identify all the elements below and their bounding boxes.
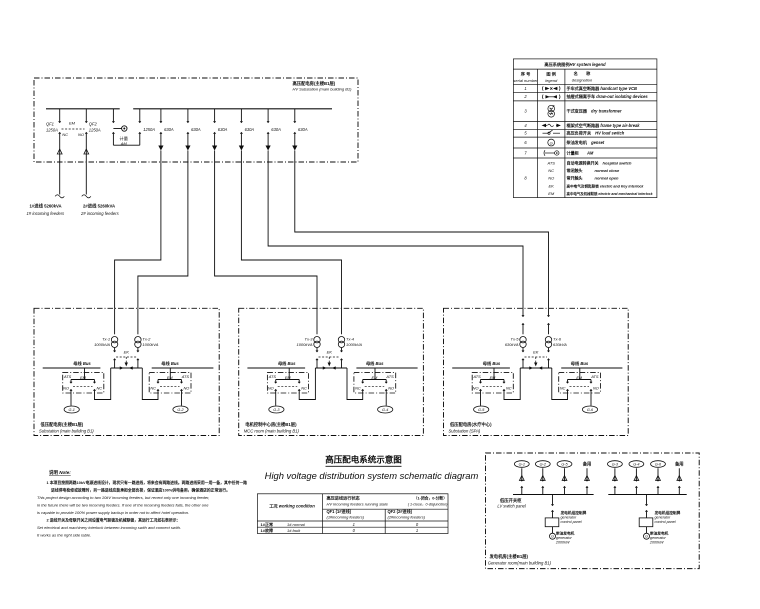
svg-text:NO: NO <box>268 385 274 390</box>
svg-text:This project design according: This project design according to two 10k… <box>37 495 209 500</box>
transformer Tx-6 630kVA <box>545 308 551 352</box>
svg-text:generator: generator <box>556 536 573 540</box>
svg-text:ATS: ATS <box>268 374 277 379</box>
svg-text:高压配电系统示意图: 高压配电系统示意图 <box>325 455 402 465</box>
svg-text:EK: EK <box>124 349 130 354</box>
svg-text:G-3: G-3 <box>612 463 619 467</box>
transformer Tx-5 630kVA <box>520 308 526 352</box>
switch below Tx-4 <box>340 351 342 369</box>
label Tx-4 1000kVA <box>346 337 362 347</box>
switch NC (right ATS, transformer side) <box>347 368 364 400</box>
legend table frame <box>513 59 657 198</box>
node G-3 generator connection oval <box>269 406 284 413</box>
svg-text:NO: NO <box>184 385 190 390</box>
svg-text:NO: NO <box>548 176 554 181</box>
ATS left dash-dot box <box>267 372 308 393</box>
wire: bus drop into right ATS <box>169 368 171 380</box>
label substation box 1 name <box>39 421 94 433</box>
svg-text:说明 Note:: 说明 Note: <box>49 469 71 476</box>
switch below Tx-6 <box>547 351 549 369</box>
interlock EK dashed between transformer switches and bus tie <box>525 349 548 366</box>
feeder 3 630A breaker column <box>212 109 228 151</box>
generator G circle <box>550 533 556 539</box>
svg-text:QF1 (1#进线): QF1 (1#进线) <box>327 508 352 514</box>
node G-5 generator connection oval <box>474 406 489 413</box>
wire: left ATS top bar <box>276 379 300 381</box>
wire: LV bus right <box>152 367 214 369</box>
svg-text:High voltage distribution syst: High voltage distribution system schemat… <box>265 470 479 481</box>
svg-text:NC: NC <box>301 385 307 390</box>
switch below Tx-5 <box>522 351 524 369</box>
svg-text:母线 Bus: 母线 Bus <box>366 360 384 367</box>
svg-text:高压负荷开关 HV load switch: 高压负荷开关 HV load switch <box>567 130 625 136</box>
wire: left ATS top bar <box>481 379 505 381</box>
svg-text:1: 1 <box>416 528 418 533</box>
svg-text:Substation (main building B1): Substation (main building B1) <box>39 428 94 433</box>
svg-text:EM: EM <box>285 376 292 380</box>
svg-text:G-5: G-5 <box>478 408 485 412</box>
svg-text:2 进线开关及母联开关之间设置电气联锁及机械联锁，其运行工况: 2 进线开关及母联开关之间设置电气联锁及机械联锁，其运行工况如右表所示： <box>47 518 181 523</box>
svg-text:MCC room (main building B1): MCC room (main building B1) <box>244 428 300 433</box>
wire: HV bus left section <box>46 108 120 110</box>
svg-text:EM: EM <box>490 376 497 380</box>
working condition table frame <box>257 494 448 534</box>
svg-text:control panel: control panel <box>655 520 676 524</box>
svg-text:HV incoming feeders running st: HV incoming feeders running state <box>327 502 389 507</box>
wire: feeder from G-6 to LV bus with switch <box>656 468 661 494</box>
svg-text:高中电气及钥匙联锁 electric and Key int: 高中电气及钥匙联锁 electric and Key interlock <box>567 183 645 188</box>
generator room dash-dot border <box>486 453 700 569</box>
label Tx-5 630kVA <box>505 337 520 347</box>
svg-text:NC: NC <box>150 385 156 390</box>
svg-text:备用: 备用 <box>583 461 592 468</box>
svg-text:母线 Bus: 母线 Bus <box>73 360 91 367</box>
interlock dashed right ATS <box>160 376 180 387</box>
wire: bus drop into left ATS <box>84 368 86 380</box>
svg-text:NC: NC <box>355 385 361 390</box>
svg-text:框架式空气断路器 frame type air-break: 框架式空气断路器 frame type air-break <box>567 122 641 128</box>
svg-text:常开触头 normal open: 常开触头 normal open <box>567 175 620 181</box>
svg-text:2000kW: 2000kW <box>555 541 570 545</box>
svg-text:G-3: G-3 <box>273 408 280 412</box>
svg-text:发电机组控制屏: 发电机组控制屏 <box>654 510 681 515</box>
wire: bus drop into right ATS <box>579 368 581 380</box>
svg-text:1# normal: 1# normal <box>287 522 305 527</box>
wire: feeder from G-3 to LV bus with switch <box>613 468 618 494</box>
svg-text:630A: 630A <box>245 127 255 132</box>
label generator control panel <box>560 510 587 524</box>
label substation box 3 name <box>449 421 493 433</box>
svg-text:2#进线 5260kVA: 2#进线 5260kVA <box>83 202 115 209</box>
wire: feeder 3 run to Tx-3 <box>215 151 317 309</box>
svg-text:ATS: ATS <box>590 374 599 379</box>
svg-text:4: 4 <box>524 123 527 128</box>
legend header serial number <box>513 71 538 83</box>
wire: transformer secondary center bar <box>520 366 552 369</box>
wire: right ATS top bar <box>568 379 592 381</box>
svg-text:低压配电房(水疗中心): 低压配电房(水疗中心) <box>449 421 492 428</box>
substation box 2 dash-dot border <box>239 308 424 435</box>
svg-text:(2#incoming feeders): (2#incoming feeders) <box>388 515 426 520</box>
svg-text:母线 Bus: 母线 Bus <box>278 360 296 367</box>
svg-text:G-2: G-2 <box>177 408 184 412</box>
svg-text:1000kVA: 1000kVA <box>142 342 158 347</box>
wire: LV bus right <box>356 367 417 369</box>
legend symbol row1: handcart VCB <box>542 86 560 90</box>
node G-1 oval <box>514 461 529 468</box>
interlock dashed right ATS <box>365 376 385 387</box>
svg-text:G-1: G-1 <box>519 463 525 467</box>
QF2 column header <box>388 508 426 520</box>
svg-text:G: G <box>551 535 554 539</box>
svg-text:抽屉式隔离手车 draw-out isolating dev: 抽屉式隔离手车 draw-out isolating devices <box>567 93 649 99</box>
wire: right ATS top bar <box>363 379 387 381</box>
interlock dashed left ATS <box>73 376 93 387</box>
wire: HV bus right section <box>133 108 332 110</box>
svg-text:高中电气及机械联锁 electric and mechani: 高中电气及机械联锁 electric and mechanical interl… <box>567 191 654 196</box>
HV substation enclosure (main building B1) dash-dot border <box>34 78 358 162</box>
wire: feeder from G-2 to LV bus with switch <box>540 468 545 494</box>
legend header legend <box>545 71 558 83</box>
label Tx-2 1000kVA <box>142 337 158 347</box>
wire: feeder from G-4 to LV bus with switch <box>634 468 639 494</box>
svg-text:电机控制中心房(主楼B1层): 电机控制中心房(主楼B1层) <box>245 421 297 428</box>
wire: generator LV bus <box>608 494 686 496</box>
svg-text:3: 3 <box>524 109 527 114</box>
svg-text:1000kVA: 1000kVA <box>296 342 312 347</box>
legend symbol row3: dry transformer <box>548 105 555 117</box>
svg-text:2: 2 <box>523 94 527 99</box>
svg-text:G-6: G-6 <box>587 408 594 412</box>
wire: LV bus left <box>43 367 101 369</box>
substation box 1 dash-dot border <box>34 308 219 435</box>
svg-text:ATS: ATS <box>181 374 190 379</box>
wire: feeder 2 run to Tx-2 <box>138 151 188 309</box>
svg-text:1250A: 1250A <box>143 127 155 132</box>
svg-text:1 本项目按照两路10kV电源进线设计，现状只有一路进线，将: 1 本项目按照两路10kV电源进线设计，现状只有一路进线，将来会有两路进线。两路… <box>47 480 248 485</box>
legend symbol row6: genset circle G <box>548 139 555 146</box>
label QF1 1250A <box>46 122 58 133</box>
switch NC (left ATS, transformer side) <box>503 368 520 400</box>
wire: generator drop with switch <box>645 495 647 518</box>
wire: LV bus left <box>452 367 510 369</box>
interlock dashed left ATS <box>278 376 298 387</box>
bus tie column 1250A <box>139 109 141 145</box>
svg-text:EK: EK <box>327 349 333 354</box>
svg-text:630A: 630A <box>298 127 308 132</box>
wire: feeder from 备用 to LV bus with switch <box>585 468 590 494</box>
switch below Tx-1 <box>114 351 116 369</box>
svg-text:G-6: G-6 <box>655 463 662 467</box>
svg-text:0: 0 <box>353 528 356 533</box>
generator control panel box <box>545 518 559 527</box>
svg-text:G: G <box>645 535 648 539</box>
switch NC (right ATS, transformer side) <box>552 368 569 400</box>
svg-text:G-4: G-4 <box>633 463 639 467</box>
wire: generator drop with switch <box>551 495 553 518</box>
legend symbol row4: frame air-break <box>543 124 561 127</box>
svg-text:G-5: G-5 <box>561 463 568 467</box>
svg-text:母线 Bus: 母线 Bus <box>161 360 179 367</box>
breaker QF1 incoming column <box>55 109 64 198</box>
wire: bus drop into left ATS <box>493 368 495 380</box>
ATS left dash-dot box <box>472 372 513 393</box>
svg-text:( 1-close，0-disjunction): ( 1-close，0-disjunction) <box>408 503 449 507</box>
svg-text:QF2 (2#进线): QF2 (2#进线) <box>388 508 413 514</box>
svg-text:Set electrical and machinery i: Set electrical and machinery interlock b… <box>37 525 181 530</box>
meter instrument circle <box>113 126 127 131</box>
svg-text:柴油发电机: 柴油发电机 <box>555 531 575 536</box>
svg-text:EM: EM <box>167 376 174 380</box>
ATS right dash-dot box <box>559 372 601 393</box>
svg-text:NO: NO <box>473 385 479 390</box>
switch NO (right ATS, generator side) <box>385 380 387 406</box>
label Tx-3 1000kVA <box>296 337 313 347</box>
label generator control panel <box>654 510 681 524</box>
svg-text:G-4: G-4 <box>382 408 388 412</box>
svg-text:generator: generator <box>650 536 667 540</box>
QF1 column header <box>327 508 365 520</box>
label QF2 1250A <box>89 122 101 133</box>
wire: feeder from G-5 to LV bus with switch <box>562 468 567 494</box>
wire: LV bus right <box>561 367 622 369</box>
label diesel generator <box>649 531 669 545</box>
wire: feeder 1 run to Tx-1 <box>115 151 161 309</box>
feeder 6 630A breaker column <box>292 109 308 151</box>
svg-text:名 称: 名 称 <box>574 70 592 77</box>
interlock EM between QF1 and QF2 (dashed) <box>62 121 85 130</box>
svg-text:NO: NO <box>593 385 599 390</box>
svg-text:(1#incoming feeders): (1#incoming feeders) <box>327 515 365 520</box>
switch below Tx-2 <box>137 351 139 369</box>
metering cabinet AM loop: left leg <box>112 109 114 145</box>
svg-text:1000kVA: 1000kVA <box>346 342 362 347</box>
wire: bus drop into right ATS <box>374 368 376 380</box>
svg-text:1#故障: 1#故障 <box>261 527 273 533</box>
node G-2 oval <box>535 461 550 468</box>
svg-text:0: 0 <box>416 522 419 527</box>
svg-text:ATS: ATS <box>63 374 72 379</box>
row fault <box>261 527 419 533</box>
wire: control panel to generator <box>552 527 554 534</box>
svg-text:serial number: serial number <box>513 78 538 83</box>
label 1# incoming feeder <box>27 202 66 216</box>
svg-text:G-1: G-1 <box>69 408 75 412</box>
svg-text:工况 working condition: 工况 working condition <box>269 503 315 510</box>
svg-text:630A: 630A <box>164 127 174 132</box>
wire: feeder from G-1 to LV bus with switch <box>519 468 524 494</box>
svg-text:发电机房(主楼B1层): 发电机房(主楼B1层) <box>490 553 529 560</box>
svg-text:计量柜 AM: 计量柜 AM <box>567 149 594 155</box>
svg-text:手车式真空断路器 handcart type VCB: 手车式真空断路器 handcart type VCB <box>567 85 638 91</box>
legend symbol row5: HV load switch <box>543 130 561 134</box>
feeder 4 630A breaker column <box>239 109 255 151</box>
svg-text:EK: EK <box>533 349 539 354</box>
wire: bus drop into left ATS <box>288 368 290 380</box>
label LV switch panel <box>497 497 526 509</box>
svg-text:母线 Bus: 母线 Bus <box>571 360 589 367</box>
legend symbol row7: metering <box>544 150 559 156</box>
svg-text:1250A: 1250A <box>46 128 58 133</box>
svg-text:发电机组控制屏: 发电机组控制屏 <box>560 510 587 515</box>
label HV Substation <box>293 80 353 92</box>
node G-6 generator connection oval <box>582 406 597 413</box>
switch NC (right ATS, transformer side) <box>142 368 159 400</box>
feeder 1 630A breaker column <box>158 109 174 151</box>
switch NC (left ATS, transformer side) <box>93 368 110 400</box>
svg-text:is capable to provide 100% pow: is capable to provide 100% power supply … <box>37 510 189 515</box>
interlock EK dashed between transformer switches and bus tie <box>116 349 136 366</box>
label Tx-6 630kVA <box>553 337 567 347</box>
feeder 2 630A breaker column <box>185 109 201 151</box>
svg-text:Generator room(main building B: Generator room(main building B1) <box>488 560 552 565</box>
svg-text:高压系统图例HV system legend: 高压系统图例HV system legend <box>544 61 606 68</box>
interlock dashed right ATS <box>570 376 590 387</box>
svg-text:1: 1 <box>353 522 355 527</box>
svg-text:干式变压器 dry transformer: 干式变压器 dry transformer <box>567 108 622 114</box>
wire: transformer secondary center bar <box>111 366 143 369</box>
svg-text:备用: 备用 <box>675 461 684 468</box>
label generator room <box>488 553 552 565</box>
svg-text:ATS: ATS <box>473 374 482 379</box>
transformer Tx-3 1000kVA <box>314 308 320 352</box>
label substation box 2 name <box>244 421 300 433</box>
node G-1 generator connection oval <box>64 406 79 413</box>
svg-text:自动电源转换开关 hospital switch: 自动电源转换开关 hospital switch <box>567 160 632 166</box>
svg-text:进线停电检修或故障时，另一路进线应能承担全部负荷，保证酒店1: 进线停电检修或故障时，另一路进线应能承担全部负荷，保证酒店100%供电备用，确保… <box>51 488 230 493</box>
svg-text:Substation (SPA): Substation (SPA) <box>449 428 481 433</box>
wire: LV bus left <box>247 367 305 369</box>
ATS right dash-dot box <box>354 372 396 393</box>
svg-text:It works as the right side tab: It works as the right side table. <box>37 533 91 538</box>
svg-text:630A: 630A <box>218 127 228 132</box>
switch NO (right ATS, generator side) <box>180 380 182 406</box>
label 2# incoming feeder <box>80 202 120 216</box>
svg-text:1: 1 <box>524 86 526 91</box>
svg-text:630A: 630A <box>271 127 281 132</box>
transformer Tx-4 1000kVA <box>338 308 344 352</box>
interlock EK dashed between transformer switches and bus tie <box>319 349 341 366</box>
svg-text:7: 7 <box>524 150 527 155</box>
switch NO (right ATS, generator side) <box>590 380 592 406</box>
svg-text:control panel: control panel <box>561 520 582 524</box>
wire: feeder 5 run to Tx-5 <box>268 151 523 309</box>
switch NO (left ATS, generator side) <box>70 380 72 406</box>
svg-text:EM: EM <box>69 121 76 126</box>
svg-text:NC: NC <box>506 385 512 390</box>
running state header <box>327 495 449 507</box>
svg-text:HV Substation (main building B: HV Substation (main building B1) <box>293 86 353 91</box>
svg-text:高压进线运行状态: 高压进线运行状态 <box>327 495 361 501</box>
transformer Tx-1 1000kVA <box>111 308 117 352</box>
svg-text:母线 Bus: 母线 Bus <box>483 360 501 367</box>
breaker QF2 incoming column <box>82 109 91 198</box>
legend header designation <box>572 70 593 83</box>
switch NC (left ATS, transformer side) <box>298 368 315 400</box>
ATS left dash-dot box <box>63 372 104 393</box>
svg-text:NO: NO <box>63 385 69 390</box>
node G-2 generator connection oval <box>173 406 188 413</box>
svg-text:2000kW: 2000kW <box>649 541 664 545</box>
svg-text:NC: NC <box>97 385 103 390</box>
svg-text:QF1: QF1 <box>46 122 54 127</box>
svg-text:G-2: G-2 <box>540 463 547 467</box>
svg-text:8: 8 <box>524 175 527 180</box>
svg-text:NO: NO <box>78 132 84 137</box>
wire: feeder 4 run to Tx-4 <box>241 151 341 309</box>
svg-text:（1-闭合，0-分断）: （1-闭合，0-分断） <box>414 496 447 501</box>
interlock dashed left ATS <box>483 376 503 387</box>
svg-text:630kVA: 630kVA <box>505 342 519 347</box>
svg-text:EM: EM <box>80 376 87 380</box>
label diesel generator <box>555 531 575 545</box>
svg-text:630A: 630A <box>191 127 201 132</box>
svg-text:EM: EM <box>372 376 379 380</box>
svg-text:1#正常: 1#正常 <box>261 521 273 527</box>
wire: feeder 6 run to Tx-6 <box>295 151 549 309</box>
node G-6 oval <box>651 461 666 468</box>
node G-4 oval <box>629 461 644 468</box>
svg-text:in the future there will be tw: in the future there will be two incoming… <box>37 503 209 508</box>
svg-text:6: 6 <box>524 140 527 145</box>
wire: feeder from 备用 to LV bus with switch <box>677 468 682 494</box>
ATS right dash-dot box <box>149 372 191 393</box>
svg-text:LV switch panel: LV switch panel <box>497 504 526 509</box>
svg-text:designation: designation <box>572 78 593 83</box>
generator G circle <box>644 533 650 539</box>
svg-text:1# incoming feeders: 1# incoming feeders <box>27 211 66 216</box>
svg-text:G: G <box>550 140 553 145</box>
row normal <box>261 521 419 527</box>
svg-text:legend: legend <box>545 78 558 83</box>
svg-text:图 例: 图 例 <box>546 71 556 78</box>
substation box 3 dash-dot border <box>444 308 629 435</box>
svg-text:generator: generator <box>655 515 672 519</box>
transformer Tx-2 1000kVA <box>135 308 141 352</box>
feeder 5 630A breaker column <box>266 109 282 151</box>
svg-text:柴油发电机: 柴油发电机 <box>649 531 669 536</box>
svg-text:ATS: ATS <box>385 374 394 379</box>
switch NO (left ATS, generator side) <box>479 380 481 406</box>
generator control panel box <box>639 518 653 527</box>
wire: metering loop bottom <box>113 144 139 146</box>
svg-text:2# incoming feeders: 2# incoming feeders <box>80 211 120 216</box>
switch NO (left ATS, generator side) <box>275 380 277 406</box>
svg-text:1# fault: 1# fault <box>287 528 301 533</box>
svg-text:常闭触头 normal close: 常闭触头 normal close <box>567 167 620 173</box>
legend symbol row2: draw-out device <box>542 95 560 99</box>
drawing title Chinese <box>325 455 402 467</box>
node G-3 oval <box>608 461 623 468</box>
svg-text:NC: NC <box>560 385 566 390</box>
wire: left ATS top bar <box>71 379 95 381</box>
svg-text:NC: NC <box>548 168 554 173</box>
svg-text:QF2: QF2 <box>89 122 98 127</box>
wire: right ATS top bar <box>158 379 182 381</box>
wire: control panel to generator <box>646 527 648 534</box>
svg-text:1000kVA: 1000kVA <box>94 342 110 347</box>
svg-text:柴油发电机 genset: 柴油发电机 genset <box>566 139 605 145</box>
label 计量 AM <box>120 135 128 146</box>
svg-text:1250A: 1250A <box>89 128 101 133</box>
svg-text:1#进线 5260kVA: 1#进线 5260kVA <box>30 202 62 209</box>
svg-text:EM: EM <box>576 376 583 380</box>
switch below Tx-3 <box>316 351 318 369</box>
svg-text:EM: EM <box>548 191 555 196</box>
label Tx-1 1000kVA <box>94 337 110 347</box>
svg-text:低压配电房(主楼B1层): 低压配电房(主楼B1层) <box>40 421 84 428</box>
svg-text:EK: EK <box>549 183 555 188</box>
